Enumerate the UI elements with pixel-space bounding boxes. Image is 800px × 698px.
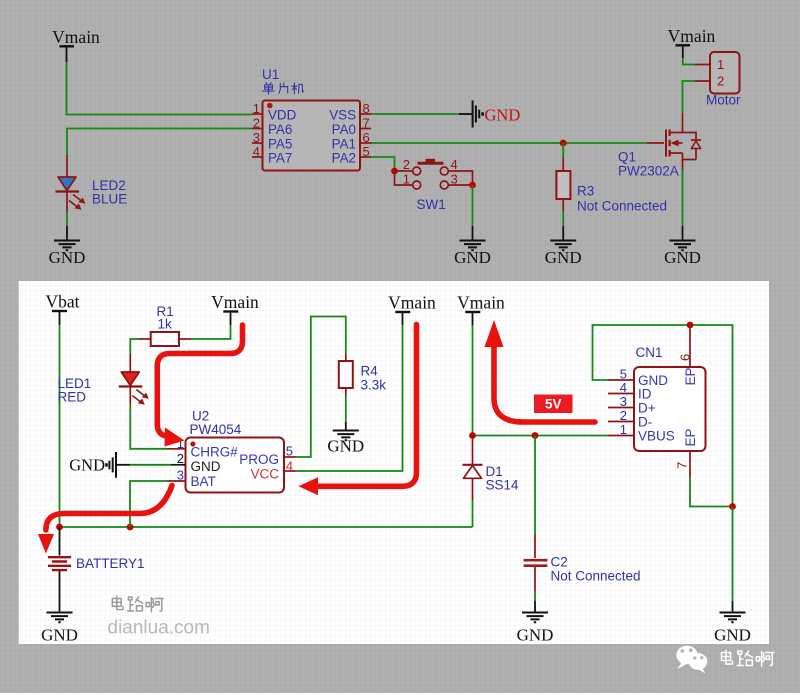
CN1 pin 4 ID [608, 380, 652, 401]
svg-text:3: 3 [177, 468, 184, 483]
label D1 SS14 [486, 464, 520, 493]
svg-text:BLUE: BLUE [92, 192, 127, 207]
junction node bottom right [729, 503, 736, 510]
watermark dianlua.com [108, 618, 210, 639]
svg-text:3.3k: 3.3k [361, 378, 387, 393]
IC U2 body [186, 438, 285, 493]
LED1 [119, 354, 149, 405]
svg-text:8: 8 [363, 101, 370, 116]
net flag Vmain (above R1) [211, 292, 259, 325]
U2 pin 1 CHRG# [167, 436, 238, 460]
svg-text:PA6: PA6 [268, 122, 292, 137]
svg-text:3: 3 [451, 172, 458, 187]
ground GND (C2) [517, 613, 554, 645]
wire to ground bottom right [732, 507, 734, 613]
svg-text:1: 1 [253, 101, 260, 116]
svg-text:CN1: CN1 [636, 345, 663, 360]
svg-text:GND: GND [69, 456, 105, 475]
label U1 chinese name [263, 83, 304, 95]
wire PA2 to SW1 [371, 157, 395, 171]
IC U1 body [263, 101, 361, 171]
wire U1 PA6 to LED2 [67, 129, 252, 156]
svg-text:GND: GND [664, 248, 701, 267]
wire LED2 to ground [66, 212, 68, 240]
U2 pin 3 BAT [167, 468, 216, 489]
label CN1 [636, 345, 663, 360]
svg-text:2: 2 [253, 116, 260, 131]
svg-text:Vmain: Vmain [211, 292, 259, 312]
svg-text:Not Connected: Not Connected [577, 199, 667, 214]
U1 pin 1 VDD [252, 101, 297, 123]
battery BATTERY1 [48, 527, 71, 612]
wire LED1 to U2 CHRG# [130, 405, 167, 449]
junction node SW1 left [391, 168, 398, 175]
annotation arrow 5V up [485, 320, 596, 422]
svg-text:GND: GND [545, 248, 582, 267]
label Motor [706, 93, 741, 108]
wire SW1 to ground [472, 185, 474, 240]
svg-text:PW2302A: PW2302A [618, 164, 679, 179]
ground GND (Q1) [664, 241, 701, 268]
label U2 PW4054 [190, 409, 242, 438]
svg-text:7: 7 [675, 462, 690, 469]
svg-text:Vmain: Vmain [457, 293, 505, 313]
svg-text:1: 1 [717, 57, 724, 72]
svg-text:PW4054: PW4054 [190, 422, 242, 437]
svg-text:2: 2 [620, 408, 627, 423]
wire R3 to ground [562, 211, 564, 240]
svg-text:GND: GND [454, 248, 491, 267]
svg-text:5: 5 [286, 444, 293, 459]
U1 pin 3 PA5 [252, 130, 292, 152]
annotation arrow VCC [299, 325, 417, 496]
diode D1 [463, 436, 483, 501]
svg-text:PROG: PROG [239, 452, 279, 467]
annotation arrow BAT to battery [38, 486, 172, 554]
svg-text:PA1: PA1 [332, 137, 356, 152]
svg-text:RED: RED [58, 390, 87, 405]
svg-text:ID: ID [638, 386, 652, 401]
svg-text:3: 3 [620, 394, 627, 409]
annotation arrow Vmain to CHRG# [157, 325, 242, 447]
U1 pin 5 PA2 [332, 144, 371, 166]
svg-text:VSS: VSS [329, 108, 356, 123]
wire Motor pin2 to Q1 drain [683, 81, 696, 113]
svg-text:6: 6 [678, 354, 693, 361]
svg-text:BAT: BAT [191, 474, 216, 489]
wire D1 to battery bus [472, 500, 474, 527]
wire Vmain to VBUS node [472, 325, 474, 436]
svg-text:R4: R4 [361, 364, 379, 379]
svg-text:GND: GND [517, 626, 554, 645]
svg-text:C2: C2 [551, 555, 568, 570]
junction node battery [56, 524, 63, 531]
junction node C2 [532, 432, 539, 439]
CN1 pin 3 D+ [608, 394, 656, 415]
CN1 pin 7 EP [675, 428, 699, 477]
svg-text:Motor: Motor [706, 93, 741, 108]
svg-text:R3: R3 [577, 184, 594, 199]
svg-text:EP: EP [683, 428, 698, 446]
svg-text:4: 4 [451, 157, 458, 172]
net flag Vmain (top left) [52, 27, 100, 62]
junction node EP top [687, 322, 694, 329]
ground GND (LED2) [49, 241, 86, 268]
svg-text:D+: D+ [638, 400, 656, 415]
wire PROG to R4 [296, 317, 346, 458]
svg-text:VBUS: VBUS [638, 428, 675, 443]
op-amp U1 label [262, 67, 279, 82]
wire PA1 to Q1 gate [371, 142, 647, 144]
wire U2 BAT to battery bus [130, 481, 167, 527]
svg-text:SS14: SS14 [486, 478, 520, 493]
wire Vbat down to battery bus [59, 325, 61, 527]
CN1 pin 2 D- [608, 408, 652, 429]
connector CN1 body [634, 367, 706, 451]
label R3 Not Connected [577, 184, 667, 214]
ground GND (R3) [545, 241, 582, 268]
svg-text:6: 6 [363, 130, 370, 145]
svg-text:GND: GND [191, 459, 221, 474]
power flag GND (U2) [69, 452, 130, 478]
svg-text:2: 2 [177, 451, 184, 466]
power flag GND (VSS) [473, 101, 521, 128]
svg-text:Not Connected: Not Connected [551, 569, 641, 584]
LED2 [56, 155, 86, 212]
wechat account name chinese [721, 650, 773, 666]
wire VBUS line [473, 435, 609, 437]
U1 pin 6 PA1 [332, 130, 371, 152]
svg-text:2: 2 [403, 157, 410, 172]
label C2 Not Connected [551, 555, 641, 584]
svg-text:4: 4 [286, 458, 293, 473]
resistor R3 [556, 158, 570, 212]
svg-text:VCC: VCC [250, 466, 279, 481]
wire GND flag to U2 pin2 [130, 464, 171, 466]
svg-text:BATTERY1: BATTERY1 [76, 556, 145, 571]
net flag Vbat [45, 292, 79, 326]
wire battery bus [60, 526, 473, 528]
ground GND (SW1) [454, 241, 491, 268]
ground GND (battery) [41, 613, 78, 645]
label R1 1k [157, 304, 174, 332]
svg-text:GND: GND [485, 106, 521, 125]
junction node BAT branch [127, 524, 134, 531]
watermark chinese [112, 596, 163, 612]
svg-text:3: 3 [253, 130, 260, 145]
svg-text:5: 5 [363, 144, 370, 159]
net flag Vmain (VCC) [388, 293, 436, 326]
net flag Vmain (top right) [668, 26, 716, 58]
svg-text:1k: 1k [158, 317, 173, 332]
svg-text:5V: 5V [545, 397, 562, 412]
wire EP7 to GND [690, 478, 733, 507]
wire VSS to GND flag [371, 113, 472, 115]
wire CN1 GND net [593, 325, 733, 507]
svg-text:1: 1 [620, 422, 627, 437]
svg-text:U1: U1 [262, 67, 279, 82]
svg-text:PA7: PA7 [268, 151, 292, 166]
wechat logo [676, 646, 707, 674]
wire Vmain to Motor pin1 [683, 58, 695, 65]
U1 pin 2 PA6 [252, 116, 292, 138]
U2 pin 2 GND [171, 451, 221, 474]
wire junction to R3 [562, 143, 564, 158]
wire R4 to ground [345, 396, 347, 430]
svg-text:EP: EP [683, 367, 698, 385]
svg-text:GND: GND [714, 626, 751, 645]
label LED1 RED [58, 376, 92, 405]
wire Vmain to R1 [191, 325, 231, 339]
svg-text:VDD: VDD [268, 108, 297, 123]
wire Q1 source to ground [682, 170, 684, 240]
label SW1 [417, 197, 446, 212]
label Q1 PW2302A [618, 150, 679, 179]
CN1 pin 5 GND [608, 367, 668, 388]
svg-text:GND: GND [327, 437, 364, 456]
svg-text:PA5: PA5 [268, 137, 292, 152]
svg-text:Vmain: Vmain [388, 293, 436, 313]
svg-text:Q1: Q1 [618, 150, 636, 165]
junction node D1 [469, 432, 476, 439]
transistor Q1 [647, 113, 701, 170]
svg-text:GND: GND [41, 626, 78, 645]
svg-text:CHRG#: CHRG# [191, 445, 239, 460]
capacitor C2 [524, 436, 548, 613]
svg-text:PA0: PA0 [332, 122, 356, 137]
svg-text:PA2: PA2 [332, 151, 356, 166]
svg-text:7: 7 [363, 116, 370, 131]
wire Vmain to U2 VCC [296, 325, 403, 471]
switch SW1 [395, 157, 473, 189]
ground GND (CN1) [714, 613, 751, 645]
svg-text:dianlua.com: dianlua.com [108, 618, 210, 639]
svg-text:4: 4 [620, 380, 627, 395]
connector Motor [695, 52, 740, 94]
junction node R3 [560, 140, 567, 147]
svg-text:Vmain: Vmain [668, 26, 716, 46]
wire R1 to LED1 [130, 339, 138, 354]
U1 pin 8 VSS [329, 101, 371, 123]
label BATTERY1 [76, 556, 145, 571]
svg-text:Vmain: Vmain [52, 27, 100, 47]
svg-text:2: 2 [717, 74, 724, 89]
CN1 pin 1 VBUS [608, 422, 675, 443]
resistor R4 [339, 354, 353, 396]
label R4 3.3k [361, 364, 387, 393]
svg-text:4: 4 [253, 144, 260, 159]
svg-text:SW1: SW1 [417, 197, 446, 212]
svg-text:D-: D- [638, 414, 652, 429]
U2 pin 5 PROG [239, 444, 295, 467]
U2 pin 4 VCC [250, 458, 295, 481]
junction node SW1 right [469, 182, 476, 189]
net flag Vmain (D1) [457, 293, 505, 326]
U1 pin 4 PA7 [252, 144, 292, 166]
label LED2 BLUE [92, 178, 127, 207]
ground GND (R4) [327, 431, 364, 456]
svg-text:1: 1 [403, 172, 410, 187]
resistor R1 [139, 332, 192, 346]
annotation 5V box [534, 395, 573, 414]
svg-text:GND: GND [49, 248, 86, 267]
CN1 pin 6 EP [678, 325, 699, 386]
svg-text:Vbat: Vbat [45, 292, 79, 312]
U1 pin 7 PA0 [332, 116, 371, 138]
wire Vmain to U1 VDD [67, 62, 253, 115]
